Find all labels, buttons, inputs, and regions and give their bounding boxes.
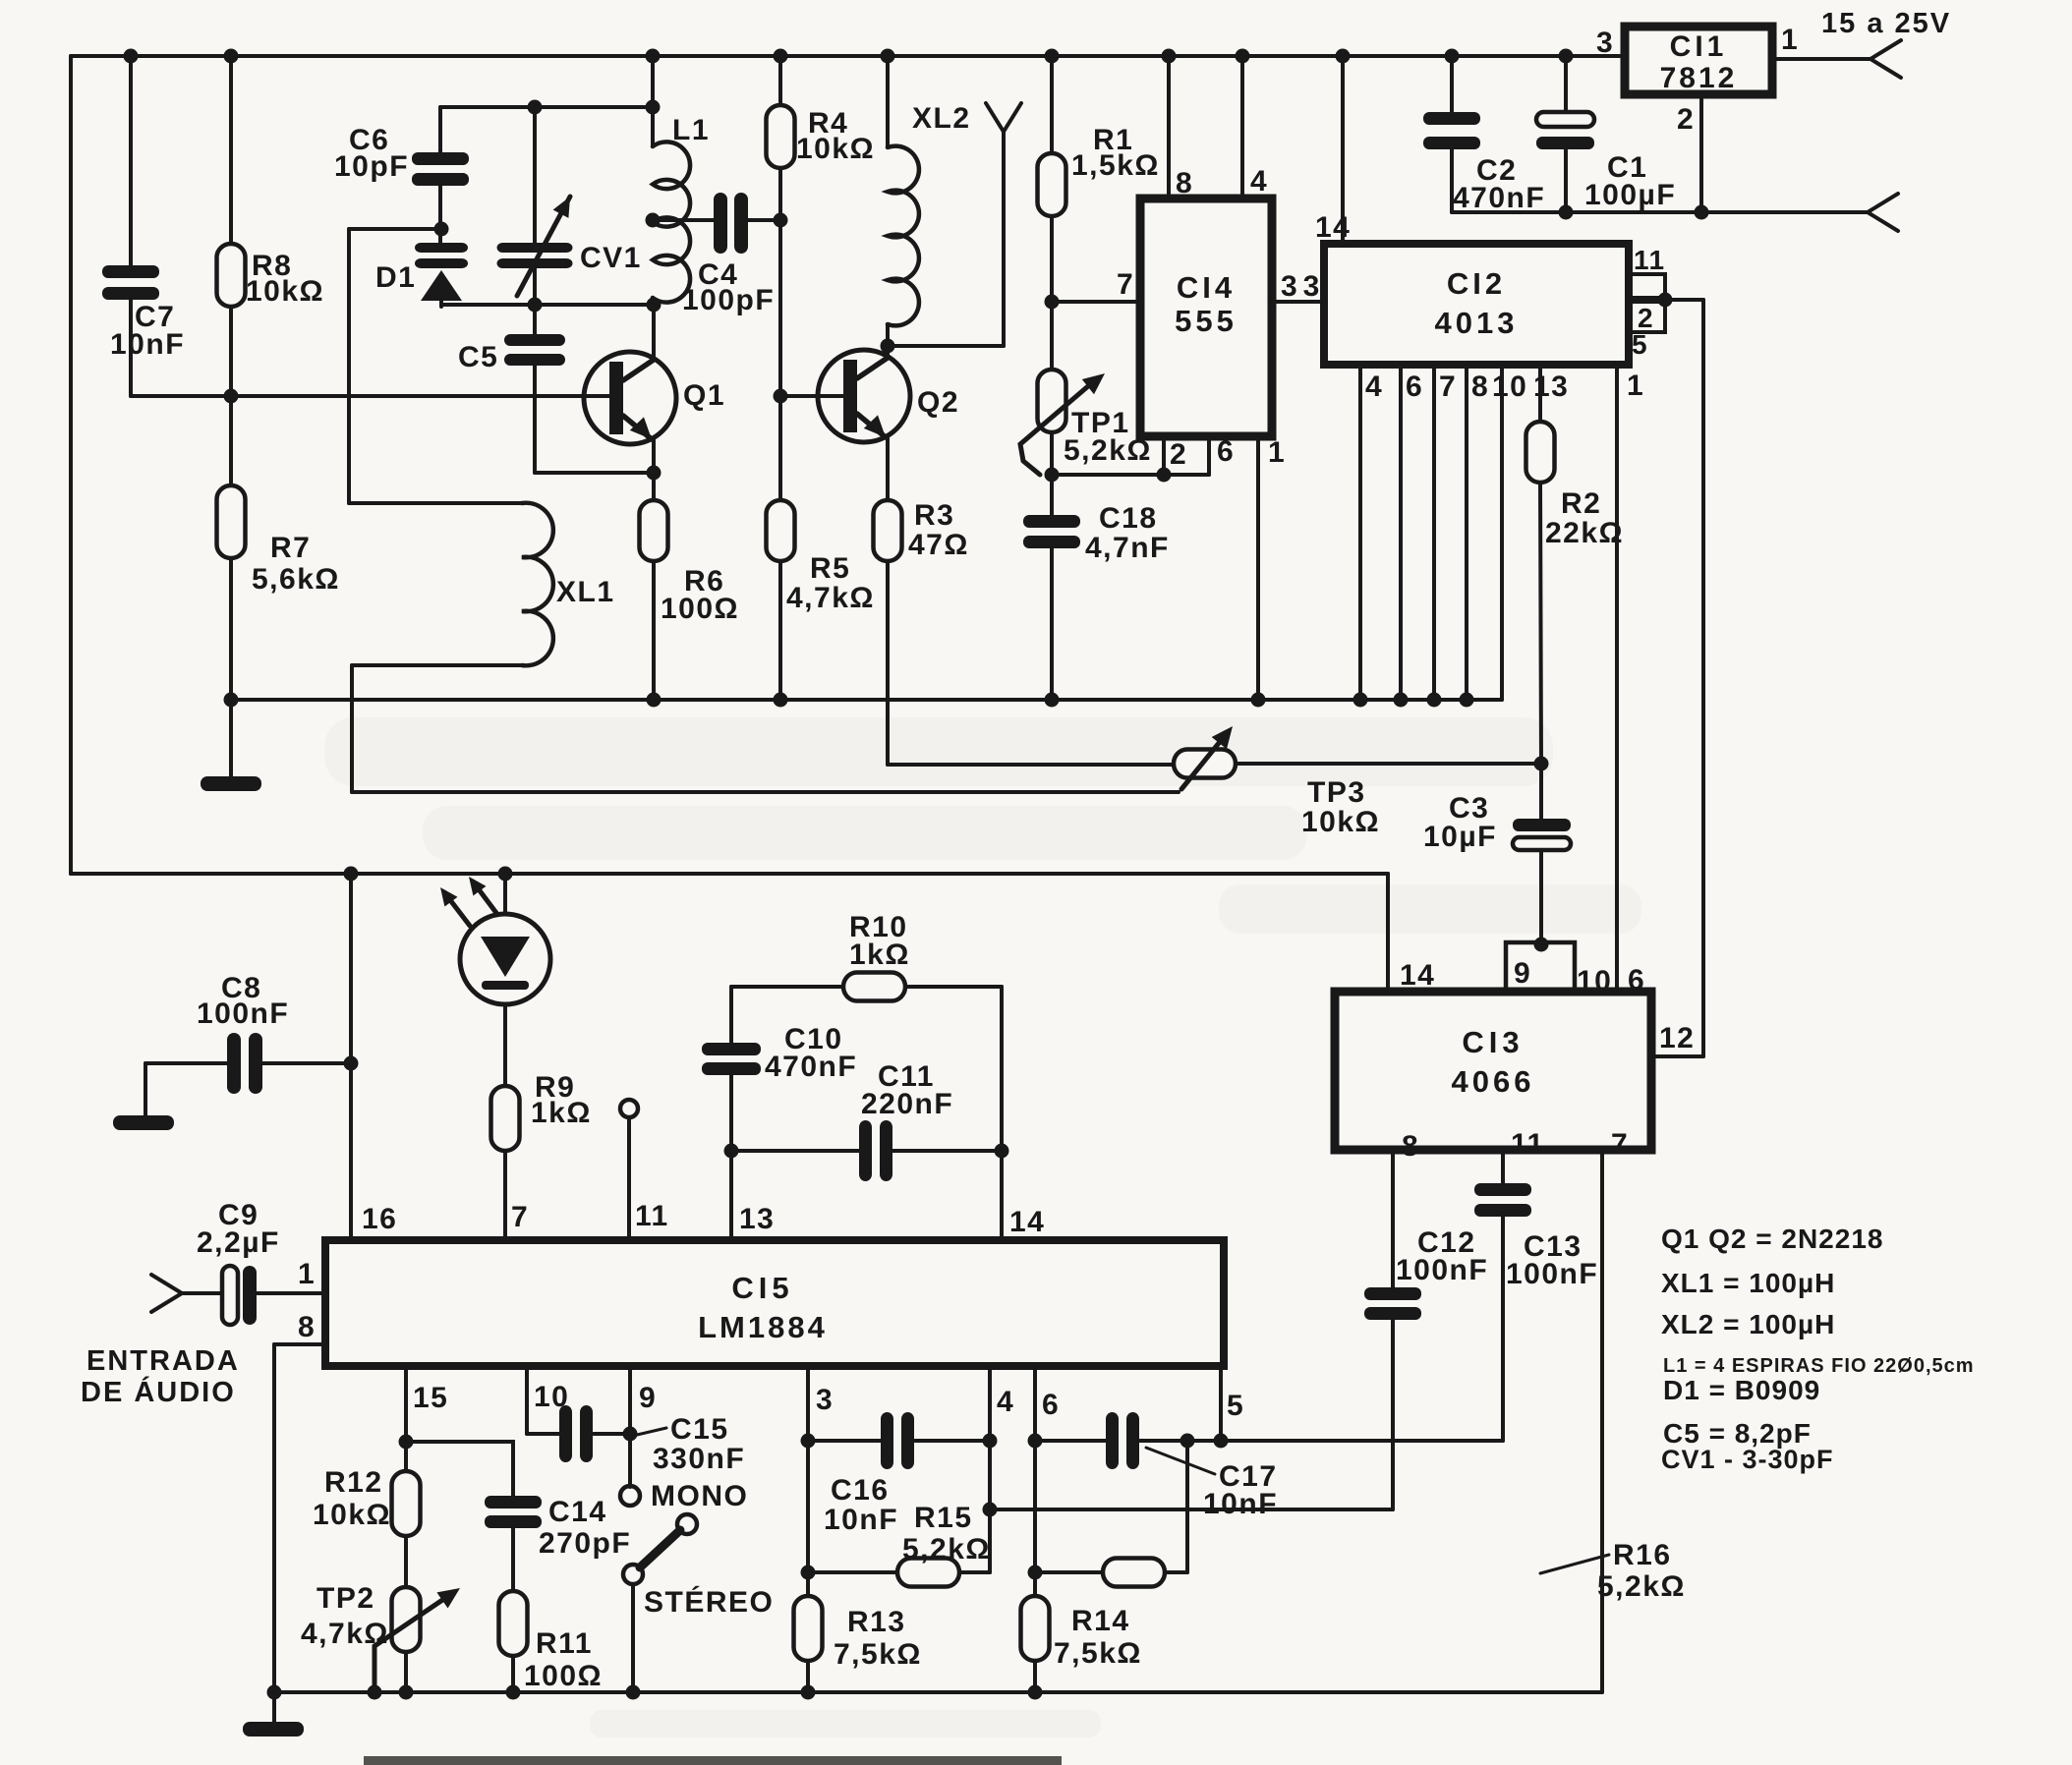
wire R16 up leg	[1185, 1441, 1189, 1572]
node CI2 pin7 rail	[1427, 693, 1442, 708]
svg-text:MONO: MONO	[651, 1480, 748, 1512]
wire Q2 collector lead	[886, 346, 890, 358]
wire CI5 pin4	[988, 1366, 992, 1572]
node TP2 wiper ground	[368, 1685, 382, 1700]
transistor Q1	[584, 352, 676, 444]
ground at C8	[113, 1115, 174, 1130]
node pin4/C12 line	[983, 1503, 998, 1517]
svg-text:10: 10	[1492, 370, 1527, 403]
node pin4/C16	[983, 1434, 998, 1449]
IC CI1 7812 box	[1625, 27, 1772, 94]
svg-text:470nF: 470nF	[1453, 182, 1545, 214]
inductor L1	[653, 142, 690, 302]
wire Q2 emitter lead	[886, 438, 890, 500]
trimpot TP2 arrow	[374, 1588, 460, 1692]
wire R15 left lead	[808, 1570, 897, 1574]
svg-text:CI3: CI3	[1462, 1025, 1524, 1059]
svg-text:47Ω: 47Ω	[908, 529, 969, 561]
wire CI3 pin12 stub	[1651, 1054, 1703, 1058]
node C3 to CI3 pin9	[1534, 938, 1549, 952]
node CI1 pin2 junction	[1695, 205, 1709, 220]
wire D1-node down left	[347, 229, 351, 503]
svg-text:10kΩ: 10kΩ	[796, 133, 875, 165]
wire C15 to pin9	[594, 1432, 630, 1436]
node C8 column tap	[344, 867, 359, 882]
svg-text:4066: 4066	[1452, 1064, 1535, 1099]
capacitor C2	[1423, 112, 1480, 149]
wire XL1 down leg	[350, 665, 354, 792]
wire XL2 bottom lead	[886, 324, 890, 346]
svg-text:5,6kΩ: 5,6kΩ	[252, 563, 340, 596]
wire XL1 bottom link	[352, 663, 522, 667]
svg-text:11: 11	[635, 1200, 669, 1232]
svg-text:1: 1	[1268, 436, 1286, 469]
wire CI4 pin4	[1240, 56, 1244, 199]
wire C17 left lead	[1035, 1439, 1106, 1443]
svg-text:4: 4	[1365, 370, 1383, 403]
capacitor C17	[1106, 1412, 1139, 1469]
capacitor C6	[412, 152, 469, 186]
CI2 pin11 stub box	[1629, 274, 1665, 298]
IC CI4 555 box	[1140, 199, 1272, 436]
svg-text:10kΩ: 10kΩ	[313, 1499, 391, 1531]
svg-text:14: 14	[1400, 959, 1435, 992]
leader line C17	[1146, 1448, 1215, 1474]
wire y1466 to C13	[1187, 1439, 1503, 1443]
ground under R7	[201, 776, 261, 791]
wire CI1 pin1 out	[1772, 57, 1871, 61]
switch STEREO contact circle	[623, 1565, 643, 1584]
wire CI5 pin9	[628, 1366, 632, 1487]
svg-text:1: 1	[1781, 24, 1799, 56]
svg-text:XL1 = 100µH: XL1 = 100µH	[1661, 1268, 1835, 1298]
svg-text:D1 = B0909: D1 = B0909	[1663, 1375, 1820, 1405]
wire input to C9	[182, 1291, 222, 1295]
svg-text:1,5kΩ: 1,5kΩ	[1071, 149, 1160, 182]
svg-text:R14: R14	[1071, 1605, 1130, 1637]
wire CI5 pin11	[627, 1117, 631, 1240]
svg-text:CI2: CI2	[1447, 266, 1506, 301]
LED cathode bar	[482, 981, 529, 990]
svg-text:R16: R16	[1613, 1539, 1672, 1571]
node R1 rail tap	[1045, 49, 1060, 64]
svg-text:7: 7	[1117, 268, 1134, 301]
capacitor C3 plus plate	[1513, 819, 1571, 831]
node pin3/R15	[801, 1566, 816, 1580]
wire R2 bottom lead	[1540, 483, 1541, 764]
svg-text:C14: C14	[548, 1496, 607, 1528]
node pin6/C17	[1028, 1434, 1043, 1449]
node pin3/C16	[801, 1434, 816, 1449]
node C8 junction	[344, 1056, 359, 1071]
svg-text:TP3: TP3	[1307, 776, 1366, 809]
trimpot TP3	[1174, 750, 1236, 778]
wire CI5 pin15	[404, 1366, 408, 1471]
wire tank bottom link y310	[441, 303, 654, 307]
capacitor C8	[227, 1033, 262, 1094]
node switch ground rail	[626, 1685, 641, 1700]
wire C6 bottom lead	[438, 186, 442, 243]
resistor R13	[794, 1596, 823, 1661]
svg-text:STÉREO: STÉREO	[644, 1585, 774, 1619]
svg-text:C15: C15	[670, 1413, 729, 1446]
wire Q1 emitter lead	[652, 440, 656, 500]
svg-text:100nF: 100nF	[1396, 1254, 1488, 1286]
CI3 pin9 stub	[1506, 942, 1575, 992]
wire y109 link C6-CV1-L1	[440, 105, 653, 109]
ground bottom-left	[243, 1722, 304, 1737]
wire L1 top lead	[651, 56, 655, 146]
svg-text:11: 11	[1634, 245, 1666, 275]
node C15/pin9 junction	[623, 1427, 638, 1442]
node L1 center tap C4	[646, 213, 661, 228]
resistor R1	[1038, 153, 1066, 216]
wire Q2 base line	[780, 394, 843, 398]
wire LED bottom lead	[503, 1004, 507, 1086]
wire CI2 pin6 down	[1399, 365, 1403, 700]
wire C5 to emitter	[535, 471, 654, 475]
wire CI2 pin14	[1341, 56, 1345, 244]
node CV1 top tap on y109	[528, 100, 543, 115]
node R6 bottom rail	[647, 693, 662, 708]
node R5 bottom rail	[774, 693, 788, 708]
svg-text:CV1 - 3-30pF: CV1 - 3-30pF	[1661, 1445, 1834, 1474]
wire R4 bottom lead	[778, 168, 782, 500]
svg-text:7812: 7812	[1660, 62, 1738, 94]
wire Q1 base line	[231, 394, 609, 398]
svg-text:L1 = 4 ESPIRAS FIO 22Ø0,5cm: L1 = 4 ESPIRAS FIO 22Ø0,5cm	[1663, 1355, 1975, 1377]
svg-text:8: 8	[1402, 1130, 1419, 1163]
capacitor C15	[559, 1405, 593, 1462]
wire pin8 left	[274, 1342, 325, 1346]
svg-text:555: 555	[1175, 304, 1237, 338]
node TP1/C18/pin2 junction	[1045, 468, 1060, 483]
svg-text:R11: R11	[536, 1627, 593, 1660]
resistor R4	[767, 105, 795, 168]
svg-text:15 a 25V: 15 a 25V	[1821, 8, 1951, 39]
svg-text:CV1: CV1	[580, 242, 642, 274]
wire pin8 down	[272, 1344, 276, 1722]
wire C17 right lead	[1140, 1439, 1187, 1443]
svg-text:3: 3	[816, 1384, 834, 1416]
wire TP1 bottom lead	[1050, 432, 1054, 515]
node C1 rail tap	[1559, 49, 1574, 64]
node TP3/R2/C3 junction	[1534, 757, 1549, 771]
node LED rail tap	[498, 867, 513, 882]
wire C2 top lead	[1450, 56, 1454, 112]
wire R15 right lead	[959, 1570, 990, 1574]
wire C8 left lead	[145, 1061, 227, 1065]
svg-text:2,2µF: 2,2µF	[197, 1226, 280, 1259]
svg-text:10kΩ: 10kΩ	[1301, 806, 1380, 838]
resistor R6	[640, 500, 668, 561]
transistor Q2	[818, 350, 910, 442]
svg-text:6: 6	[1628, 964, 1645, 996]
svg-text:100nF: 100nF	[197, 997, 289, 1030]
svg-text:100µF: 100µF	[1584, 179, 1676, 211]
node R8 top rail tap	[224, 49, 239, 64]
inductor XL2	[888, 146, 919, 326]
wire C4 right lead	[748, 218, 780, 222]
trimpot TP2	[392, 1587, 421, 1652]
svg-text:Q2: Q2	[917, 386, 959, 419]
terminal chevron +V	[1871, 40, 1901, 78]
switch MONO contact circle	[620, 1486, 640, 1506]
wire R12 to TP2	[404, 1536, 408, 1587]
svg-text:100Ω: 100Ω	[661, 593, 739, 625]
capacitor C18	[1023, 515, 1080, 548]
wire R9 bottom lead	[503, 1151, 507, 1240]
wire C6 top lead	[438, 107, 442, 152]
svg-text:100Ω: 100Ω	[524, 1660, 603, 1692]
svg-text:1: 1	[1627, 370, 1644, 402]
terminal circle pin11	[620, 1100, 638, 1117]
resistor R2	[1526, 422, 1555, 483]
svg-text:ENTRADA: ENTRADA	[86, 1345, 240, 1377]
svg-text:220nF: 220nF	[861, 1088, 953, 1120]
resistor R15	[897, 1559, 959, 1587]
wire R1 top lead	[1050, 56, 1054, 153]
wire CI3 pin8 stub	[1391, 1150, 1395, 1287]
wire R8 bottom lead	[229, 307, 233, 485]
node C11/pin14 junction	[995, 1144, 1009, 1159]
IC CI5 LM1884 box	[325, 1240, 1224, 1366]
wire R6 bottom lead	[652, 561, 656, 700]
svg-text:2: 2	[1170, 438, 1187, 471]
wire CI2 pin10 down	[1500, 365, 1504, 700]
node CI4 pin4 rail tap	[1236, 49, 1250, 64]
wire R11 bottom lead	[511, 1656, 515, 1692]
wire R8 top lead	[229, 56, 233, 244]
switch throw circle	[677, 1514, 697, 1534]
svg-text:1kΩ: 1kΩ	[531, 1097, 592, 1129]
node TP2 ground rail	[399, 1685, 414, 1700]
wire C11 right lead	[892, 1149, 1002, 1153]
svg-text:330nF: 330nF	[653, 1443, 745, 1475]
wire CI3 pin14 up	[1386, 874, 1390, 992]
wire CI2 pin8 down	[1465, 365, 1468, 700]
wire top +12V rail	[71, 54, 1625, 58]
svg-text:15: 15	[413, 1382, 448, 1414]
capacitor C13	[1474, 1183, 1531, 1217]
node C10/pin13 junction	[724, 1144, 739, 1159]
node C2 rail tap	[1445, 49, 1460, 64]
node pin6/R16	[1028, 1566, 1043, 1580]
svg-text:7,5kΩ: 7,5kΩ	[834, 1638, 922, 1671]
wire C2 bottom lead	[1450, 149, 1454, 212]
svg-text:XL2: XL2	[912, 102, 971, 135]
svg-text:16: 16	[362, 1203, 397, 1235]
wire TP3 wiper line	[352, 790, 1179, 794]
wire CI4 pin2 stub	[1162, 436, 1166, 475]
svg-text:9: 9	[639, 1382, 657, 1414]
wire CI3 pin11 stub	[1501, 1150, 1505, 1183]
capacitor CV1 plates	[497, 243, 573, 268]
resistor R5	[767, 500, 795, 561]
leader line R16	[1540, 1555, 1609, 1573]
wire CV1 bottom lead	[533, 268, 537, 305]
svg-text:5,2kΩ: 5,2kΩ	[1597, 1570, 1686, 1603]
svg-text:6: 6	[1042, 1389, 1060, 1421]
node R13 ground rail	[801, 1685, 816, 1700]
svg-text:10nF: 10nF	[1203, 1488, 1278, 1520]
svg-text:10pF: 10pF	[334, 150, 409, 183]
svg-text:7: 7	[1611, 1128, 1629, 1161]
wire C12 bottom lead	[1391, 1320, 1395, 1509]
capacitor C9 plus plate	[222, 1266, 238, 1325]
svg-text:R7: R7	[270, 532, 311, 564]
svg-text:100nF: 100nF	[1506, 1258, 1598, 1290]
wire C11 left lead	[731, 1149, 859, 1153]
wire antenna mast	[1002, 132, 1006, 346]
capacitor C12	[1364, 1287, 1421, 1320]
node Q2 base junction	[774, 389, 788, 404]
IC CI2 4013 box	[1324, 244, 1629, 365]
wire C8 ground lead	[144, 1063, 147, 1115]
svg-text:R2: R2	[1561, 487, 1601, 520]
wire C12 link line	[990, 1508, 1393, 1511]
svg-text:TP2: TP2	[317, 1582, 375, 1615]
svg-text:5: 5	[1227, 1390, 1244, 1422]
node C4/R4 junction	[774, 213, 788, 228]
svg-text:Q1 Q2 = 2N2218: Q1 Q2 = 2N2218	[1661, 1224, 1883, 1254]
terminal chevron audio input	[151, 1275, 182, 1312]
node pin8 ground rail	[267, 1685, 282, 1700]
svg-text:C5: C5	[458, 341, 498, 373]
node XL2 rail tap	[881, 49, 895, 64]
wire CI1 pin2 down	[1699, 94, 1703, 212]
node y109/L1 junction	[646, 100, 661, 115]
trimpot TP1 arrow	[1020, 373, 1105, 475]
node L1 bottom / Q1 collector	[647, 298, 662, 313]
node C7 top rail tap	[124, 49, 139, 64]
wire left border vertical	[69, 56, 73, 874]
svg-text:Q1: Q1	[683, 379, 725, 412]
svg-text:D1: D1	[375, 261, 416, 294]
antenna symbol arms	[986, 103, 1021, 132]
wire R4 top lead	[778, 56, 782, 105]
node R7 bottom rail junction	[224, 693, 239, 708]
wire R16 left lead	[1035, 1570, 1103, 1574]
svg-text:4: 4	[997, 1386, 1014, 1418]
svg-text:14: 14	[1009, 1206, 1045, 1238]
svg-text:R3: R3	[914, 499, 954, 532]
wire pin11-2 to vertical	[1665, 298, 1703, 302]
svg-text:7,5kΩ: 7,5kΩ	[1054, 1637, 1142, 1670]
svg-text:13: 13	[739, 1203, 775, 1235]
wire R3 to TP3 left	[888, 763, 1174, 767]
svg-text:100pF: 100pF	[682, 284, 775, 316]
svg-text:10nF: 10nF	[824, 1504, 898, 1536]
node CI2 pin8 rail	[1460, 693, 1474, 708]
svg-text:DE ÁUDIO: DE ÁUDIO	[81, 1375, 236, 1408]
svg-text:22kΩ: 22kΩ	[1545, 517, 1624, 549]
wire CI2 pin1 to CI3 pin10	[1615, 365, 1619, 992]
wire C7 to base node	[131, 394, 231, 398]
capacitor C14	[485, 1496, 542, 1528]
wire CI3 pin7 down	[1600, 1150, 1604, 1692]
svg-text:33: 33	[1281, 270, 1325, 303]
svg-text:7: 7	[1439, 370, 1457, 403]
wire CI4 pin3 to CI2	[1272, 300, 1324, 304]
svg-text:6: 6	[1406, 370, 1423, 403]
svg-text:LM1884: LM1884	[698, 1310, 828, 1344]
wire CI5 pin13	[729, 1151, 733, 1240]
wire C4 left lead	[653, 218, 714, 222]
resistor R8	[217, 244, 246, 307]
trimpot TP1	[1038, 370, 1066, 432]
capacitor C1 plus plate	[1536, 112, 1594, 127]
wire C3 bottom lead	[1539, 850, 1543, 942]
wire TP3 right link	[1236, 762, 1541, 766]
svg-text:10: 10	[1577, 965, 1612, 997]
wire CI5 pin6	[1033, 1366, 1037, 1596]
svg-text:9: 9	[1514, 957, 1531, 990]
node XL2/collector/antenna	[881, 339, 895, 354]
svg-text:14: 14	[1315, 211, 1351, 244]
capacitor C3 minus plate	[1513, 837, 1571, 850]
wire bottom ground rail	[274, 1690, 1602, 1694]
wire C1 top lead	[1564, 56, 1568, 112]
LED D2 circle	[460, 914, 550, 1004]
svg-text:10µF: 10µF	[1423, 821, 1497, 853]
resistor R3	[874, 500, 902, 561]
node base junction R8/C7/R7	[224, 389, 239, 404]
svg-text:12: 12	[1659, 1022, 1695, 1054]
wire CI5 pin10	[525, 1366, 529, 1434]
LED triangle	[481, 937, 530, 977]
node pin5 junction	[1214, 1434, 1229, 1449]
node C18 bottom rail	[1045, 693, 1060, 708]
wire C14 bottom lead	[511, 1528, 515, 1591]
svg-text:R15: R15	[914, 1502, 973, 1534]
diode D1 triangle	[421, 270, 462, 301]
svg-text:2: 2	[1677, 103, 1695, 136]
wire R10 loop top-right	[905, 985, 1002, 989]
LED emission arrows	[440, 877, 496, 926]
node CV1 bottom tap	[528, 298, 543, 313]
svg-text:R12: R12	[324, 1466, 383, 1499]
svg-text:R5: R5	[810, 552, 850, 585]
node C1 bottom junction	[1559, 205, 1574, 220]
wire R10 loop top-left	[731, 985, 843, 989]
wire CI4 pin7 link	[1052, 300, 1140, 304]
node R14 ground rail	[1028, 1685, 1043, 1700]
wire CI5 pin3	[806, 1366, 810, 1596]
wire LED top lead	[503, 874, 507, 914]
svg-text:C18: C18	[1099, 502, 1158, 535]
wire XL2 top lead	[886, 56, 890, 147]
wire C5 top lead	[533, 305, 537, 334]
svg-text:3: 3	[1596, 27, 1614, 59]
wire R13 bottom lead	[806, 1661, 810, 1692]
capacitor C5	[504, 334, 565, 366]
wire C10 top lead	[729, 987, 733, 1043]
capacitor C11	[859, 1120, 892, 1181]
wire CI2 pin7 down	[1432, 365, 1436, 700]
paper bleed-through ghost (decorative)	[324, 717, 1641, 1737]
node CI4 pin8 rail tap	[1162, 49, 1177, 64]
svg-text:5: 5	[1632, 329, 1648, 360]
svg-text:L1: L1	[672, 114, 710, 146]
wire C9 to pin1	[257, 1291, 325, 1295]
resistor R14	[1021, 1596, 1050, 1661]
leader line C15	[637, 1428, 666, 1435]
svg-text:470nF: 470nF	[765, 1051, 857, 1083]
wire 0V return line	[1452, 210, 1868, 214]
capacitor C16	[881, 1412, 914, 1469]
node R11 ground rail	[506, 1685, 521, 1700]
